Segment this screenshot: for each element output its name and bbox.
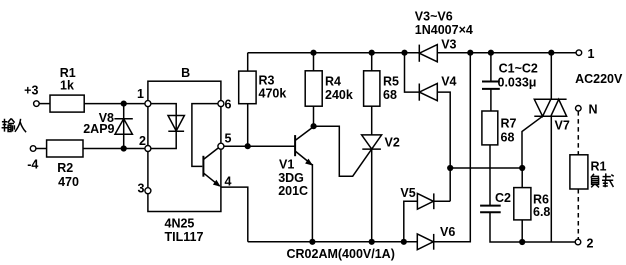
terminal 2 bbox=[575, 237, 593, 251]
svg-text:1: 1 bbox=[588, 47, 595, 61]
pin 5 bbox=[218, 132, 232, 150]
svg-text:0.033μ: 0.033μ bbox=[498, 75, 537, 89]
node V7 top bbox=[548, 50, 554, 56]
svg-text:470: 470 bbox=[58, 175, 79, 189]
svg-text:3DG: 3DG bbox=[278, 171, 304, 185]
node V8 cathode junction bbox=[121, 145, 127, 151]
node C1 top bbox=[488, 50, 494, 56]
svg-text:+3: +3 bbox=[24, 84, 38, 98]
svg-text:V6: V6 bbox=[440, 225, 455, 239]
dashed wire load R1 to terminal 2 bbox=[577, 189, 579, 239]
resistor R2 470 bbox=[47, 140, 83, 189]
resistor R1 1k bbox=[50, 66, 84, 112]
svg-text:AC220V: AC220V bbox=[575, 72, 623, 86]
diode V8 2AP9 bbox=[83, 104, 133, 149]
pin 2 bbox=[139, 134, 151, 152]
svg-text:2: 2 bbox=[587, 237, 594, 251]
svg-text:6: 6 bbox=[225, 98, 232, 112]
wire R2 to pin2 bbox=[83, 148, 145, 150]
wire -4 to R2 bbox=[36, 148, 47, 150]
svg-text:N: N bbox=[589, 103, 598, 117]
resistor R7 68 bbox=[482, 111, 517, 145]
node R3 bottom junction bbox=[245, 143, 251, 149]
node AC1 vertical top bbox=[467, 50, 473, 56]
svg-text:68: 68 bbox=[383, 88, 397, 102]
wire +3 to R1 bbox=[39, 103, 50, 105]
svg-text:B: B bbox=[181, 66, 190, 80]
svg-text:240k: 240k bbox=[325, 88, 353, 102]
load resistor R1 负载 bbox=[570, 155, 607, 189]
resistor R4 240k bbox=[305, 53, 353, 127]
svg-text:V3: V3 bbox=[441, 37, 456, 51]
node V3/V4 cathode junction on top rail bbox=[401, 50, 407, 56]
label 输入 (input) bbox=[2, 119, 27, 133]
capacitor C1 bbox=[482, 53, 538, 111]
svg-text:V7: V7 bbox=[555, 119, 570, 133]
svg-text:4N25: 4N25 bbox=[165, 217, 195, 231]
svg-text:V1: V1 bbox=[279, 158, 294, 172]
svg-text:1k: 1k bbox=[60, 78, 74, 92]
diode V4 bbox=[419, 74, 456, 100]
triac V7 bbox=[522, 53, 570, 242]
transistor V1 3DG201C bbox=[278, 127, 313, 242]
terminal 1 bbox=[576, 47, 594, 61]
node gate line at AC2 bbox=[447, 165, 453, 171]
terminal +3 bbox=[24, 84, 39, 107]
wire pin4 down to bottom rail bbox=[221, 187, 248, 242]
svg-text:R4: R4 bbox=[325, 75, 341, 89]
node V2 cathode on rail bbox=[369, 239, 375, 245]
svg-text:201C: 201C bbox=[278, 184, 308, 198]
wire pin5 to V1 base with R3 junction bbox=[224, 145, 295, 147]
svg-text:TIL117: TIL117 bbox=[165, 230, 204, 244]
top rail left part bbox=[248, 52, 420, 54]
svg-text:V2: V2 bbox=[385, 136, 400, 150]
diode V6 bbox=[417, 53, 470, 250]
node R5 top bbox=[369, 50, 375, 56]
label 负载 (load) bbox=[591, 173, 614, 187]
wire V4 anode to AC2 vertical bbox=[437, 92, 450, 201]
thyristor V2 bbox=[362, 135, 400, 242]
svg-text:1: 1 bbox=[137, 87, 144, 101]
svg-text:CR02AM(400V/1A): CR02AM(400V/1A) bbox=[287, 247, 395, 261]
wire gate line bbox=[450, 167, 522, 169]
resistor R5 68 bbox=[364, 53, 399, 135]
svg-text:2: 2 bbox=[139, 134, 146, 148]
wire R7 bottom to C2 crossing gate line bbox=[489, 145, 491, 206]
label V3~V6 1N4007x4 bbox=[415, 10, 473, 37]
pin 1 bbox=[137, 87, 151, 107]
pin 6 bbox=[218, 98, 232, 112]
diode V3 bbox=[419, 37, 456, 61]
node V1 emitter on rail bbox=[309, 239, 315, 245]
svg-text:C1~C2: C1~C2 bbox=[499, 61, 538, 75]
node gate junction at R6 top bbox=[519, 165, 525, 171]
terminal N bbox=[576, 103, 598, 117]
wire V1 collector to V2 gate bbox=[314, 126, 372, 176]
LED inside optocoupler bbox=[151, 104, 185, 149]
svg-text:R1: R1 bbox=[591, 160, 607, 174]
wire V4 branch vertical bbox=[405, 53, 420, 92]
svg-text:1N4007×4: 1N4007×4 bbox=[415, 23, 473, 37]
svg-text:C2: C2 bbox=[495, 191, 511, 205]
node V1 collector junction bbox=[311, 123, 317, 129]
svg-text:2AP9: 2AP9 bbox=[83, 122, 114, 136]
svg-text:V5: V5 bbox=[400, 186, 415, 200]
bottom rail left part bbox=[248, 241, 417, 243]
capacitor C2 bbox=[480, 191, 575, 242]
top rail right part bbox=[437, 52, 576, 54]
node R4 top bbox=[310, 50, 316, 56]
svg-text:R7: R7 bbox=[501, 117, 517, 131]
svg-text:470k: 470k bbox=[259, 86, 287, 100]
node V5/V6 anode junction on rail bbox=[401, 239, 407, 245]
phototransistor inside optocoupler bbox=[192, 104, 221, 187]
pin 3 bbox=[138, 182, 151, 196]
svg-text:R5: R5 bbox=[383, 75, 399, 89]
svg-text:V3~V6: V3~V6 bbox=[415, 10, 453, 24]
node V8 anode junction bbox=[121, 101, 127, 107]
dashed wire N to load R1 bbox=[577, 111, 579, 155]
svg-text:V4: V4 bbox=[441, 74, 456, 88]
terminal -4 bbox=[27, 146, 38, 172]
wire R1 to pin1 bbox=[84, 103, 145, 105]
node R6 bottom on rail bbox=[519, 239, 525, 245]
svg-text:68: 68 bbox=[501, 131, 515, 145]
svg-text:4: 4 bbox=[225, 174, 232, 188]
resistor R3 470k bbox=[239, 53, 287, 147]
resistor R6 6.8 bbox=[514, 168, 551, 242]
svg-text:R2: R2 bbox=[57, 161, 73, 175]
svg-text:3: 3 bbox=[138, 182, 145, 196]
optocoupler B 4N25/TIL117 box bbox=[148, 66, 221, 244]
diode V5 bbox=[400, 186, 450, 242]
svg-text:-4: -4 bbox=[27, 158, 38, 172]
svg-text:5: 5 bbox=[225, 132, 232, 146]
svg-text:6.8: 6.8 bbox=[533, 205, 550, 219]
